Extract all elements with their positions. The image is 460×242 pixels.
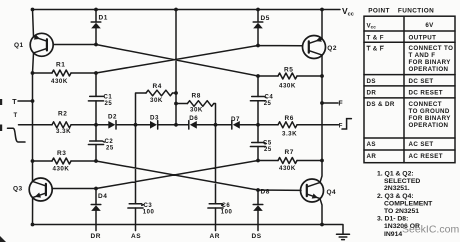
svg-text:CONNECT TO: CONNECT TO bbox=[409, 45, 454, 52]
svg-text:SeekIC.com: SeekIC.com bbox=[402, 224, 459, 236]
svg-text:DC RESET: DC RESET bbox=[409, 90, 444, 97]
svg-text:DR: DR bbox=[367, 90, 377, 97]
svg-text:D7: D7 bbox=[231, 116, 240, 123]
svg-text:DS & DR: DS & DR bbox=[367, 101, 395, 108]
svg-text:Vcc: Vcc bbox=[367, 22, 377, 29]
svg-text:C2: C2 bbox=[105, 139, 114, 145]
svg-text:Q4: Q4 bbox=[327, 189, 337, 196]
svg-text:430K: 430K bbox=[51, 78, 68, 85]
svg-text:R4: R4 bbox=[153, 83, 162, 90]
svg-text:2. Q3 & Q4:: 2. Q3 & Q4: bbox=[377, 193, 414, 200]
svg-text:3.3K: 3.3K bbox=[282, 131, 297, 138]
svg-text:AS: AS bbox=[367, 141, 376, 148]
svg-text:C4: C4 bbox=[265, 95, 274, 101]
svg-text:D2: D2 bbox=[108, 114, 117, 121]
svg-text:6V: 6V bbox=[425, 22, 434, 29]
svg-text:D5: D5 bbox=[261, 15, 270, 22]
svg-text:F: F bbox=[338, 101, 343, 108]
svg-text:OUTPUT: OUTPUT bbox=[409, 34, 437, 41]
svg-text:R8: R8 bbox=[192, 93, 201, 100]
svg-text:3. D1- D8:: 3. D1- D8: bbox=[377, 216, 408, 223]
svg-text:R6: R6 bbox=[285, 115, 294, 122]
svg-text:AC SET: AC SET bbox=[409, 141, 434, 148]
svg-text:DS: DS bbox=[367, 78, 376, 85]
svg-text:30K: 30K bbox=[190, 107, 203, 114]
svg-text:AR: AR bbox=[210, 233, 220, 240]
svg-text:D4: D4 bbox=[98, 193, 107, 200]
svg-text:Q1: Q1 bbox=[14, 42, 24, 49]
svg-text:Q2: Q2 bbox=[327, 45, 337, 52]
svg-text:100: 100 bbox=[221, 209, 233, 215]
svg-text:T & F: T & F bbox=[367, 34, 384, 41]
svg-text:R1: R1 bbox=[56, 62, 65, 69]
svg-text:100: 100 bbox=[143, 209, 155, 215]
svg-text:D6: D6 bbox=[189, 115, 198, 122]
svg-text:DC SET: DC SET bbox=[409, 78, 434, 85]
svg-text:AC RESET: AC RESET bbox=[409, 153, 444, 160]
svg-text:R3: R3 bbox=[57, 150, 66, 157]
svg-text:T: T bbox=[14, 113, 18, 119]
svg-text:25: 25 bbox=[105, 101, 113, 107]
svg-text:DR: DR bbox=[91, 233, 101, 240]
svg-text:Q3: Q3 bbox=[13, 186, 23, 193]
svg-text:25: 25 bbox=[106, 145, 114, 151]
svg-text:T & F: T & F bbox=[367, 46, 384, 53]
svg-text:POINT: POINT bbox=[368, 8, 390, 15]
svg-text:OPERATION: OPERATION bbox=[409, 122, 449, 129]
svg-text:30K: 30K bbox=[150, 97, 163, 104]
svg-text:2N3251.: 2N3251. bbox=[384, 185, 410, 192]
svg-text:FOR BINARY: FOR BINARY bbox=[409, 59, 452, 66]
svg-text:C6: C6 bbox=[222, 203, 231, 209]
svg-text:C5: C5 bbox=[263, 141, 272, 147]
svg-text:AR: AR bbox=[367, 153, 377, 160]
svg-text:R5: R5 bbox=[284, 67, 293, 74]
svg-text:T AND F: T AND F bbox=[409, 52, 436, 59]
svg-text:IN914: IN914 bbox=[384, 231, 402, 238]
svg-text:1. Q1 & Q2:: 1. Q1 & Q2: bbox=[377, 171, 414, 178]
svg-text:SELECTED: SELECTED bbox=[384, 178, 420, 185]
svg-text:R2: R2 bbox=[58, 111, 67, 118]
svg-text:FOR BINARY: FOR BINARY bbox=[409, 115, 452, 122]
svg-text:COMPLEMENT: COMPLEMENT bbox=[384, 200, 433, 207]
svg-text:FUNCTION: FUNCTION bbox=[398, 8, 434, 15]
svg-text:3.3K: 3.3K bbox=[56, 128, 71, 135]
svg-text:F: F bbox=[339, 123, 343, 129]
svg-text:OPERATION: OPERATION bbox=[409, 66, 449, 73]
svg-text:D8: D8 bbox=[261, 189, 270, 196]
svg-text:TO GROUND: TO GROUND bbox=[409, 108, 450, 115]
svg-text:D1: D1 bbox=[99, 15, 108, 22]
svg-text:CONNECT: CONNECT bbox=[409, 101, 442, 108]
svg-text:430K: 430K bbox=[279, 165, 296, 172]
svg-text:AS: AS bbox=[131, 233, 141, 240]
svg-text:TO 2N3251: TO 2N3251 bbox=[384, 208, 419, 215]
svg-text:430K: 430K bbox=[53, 166, 70, 173]
svg-text:R7: R7 bbox=[285, 149, 294, 156]
svg-text:430K: 430K bbox=[279, 83, 296, 90]
svg-text:T: T bbox=[12, 99, 17, 106]
svg-text:C1: C1 bbox=[104, 94, 113, 100]
svg-text:25: 25 bbox=[264, 147, 272, 153]
svg-text:D3: D3 bbox=[150, 115, 159, 122]
svg-text:25: 25 bbox=[264, 101, 272, 107]
svg-text:C3: C3 bbox=[144, 203, 153, 209]
svg-text:DS: DS bbox=[252, 233, 262, 240]
